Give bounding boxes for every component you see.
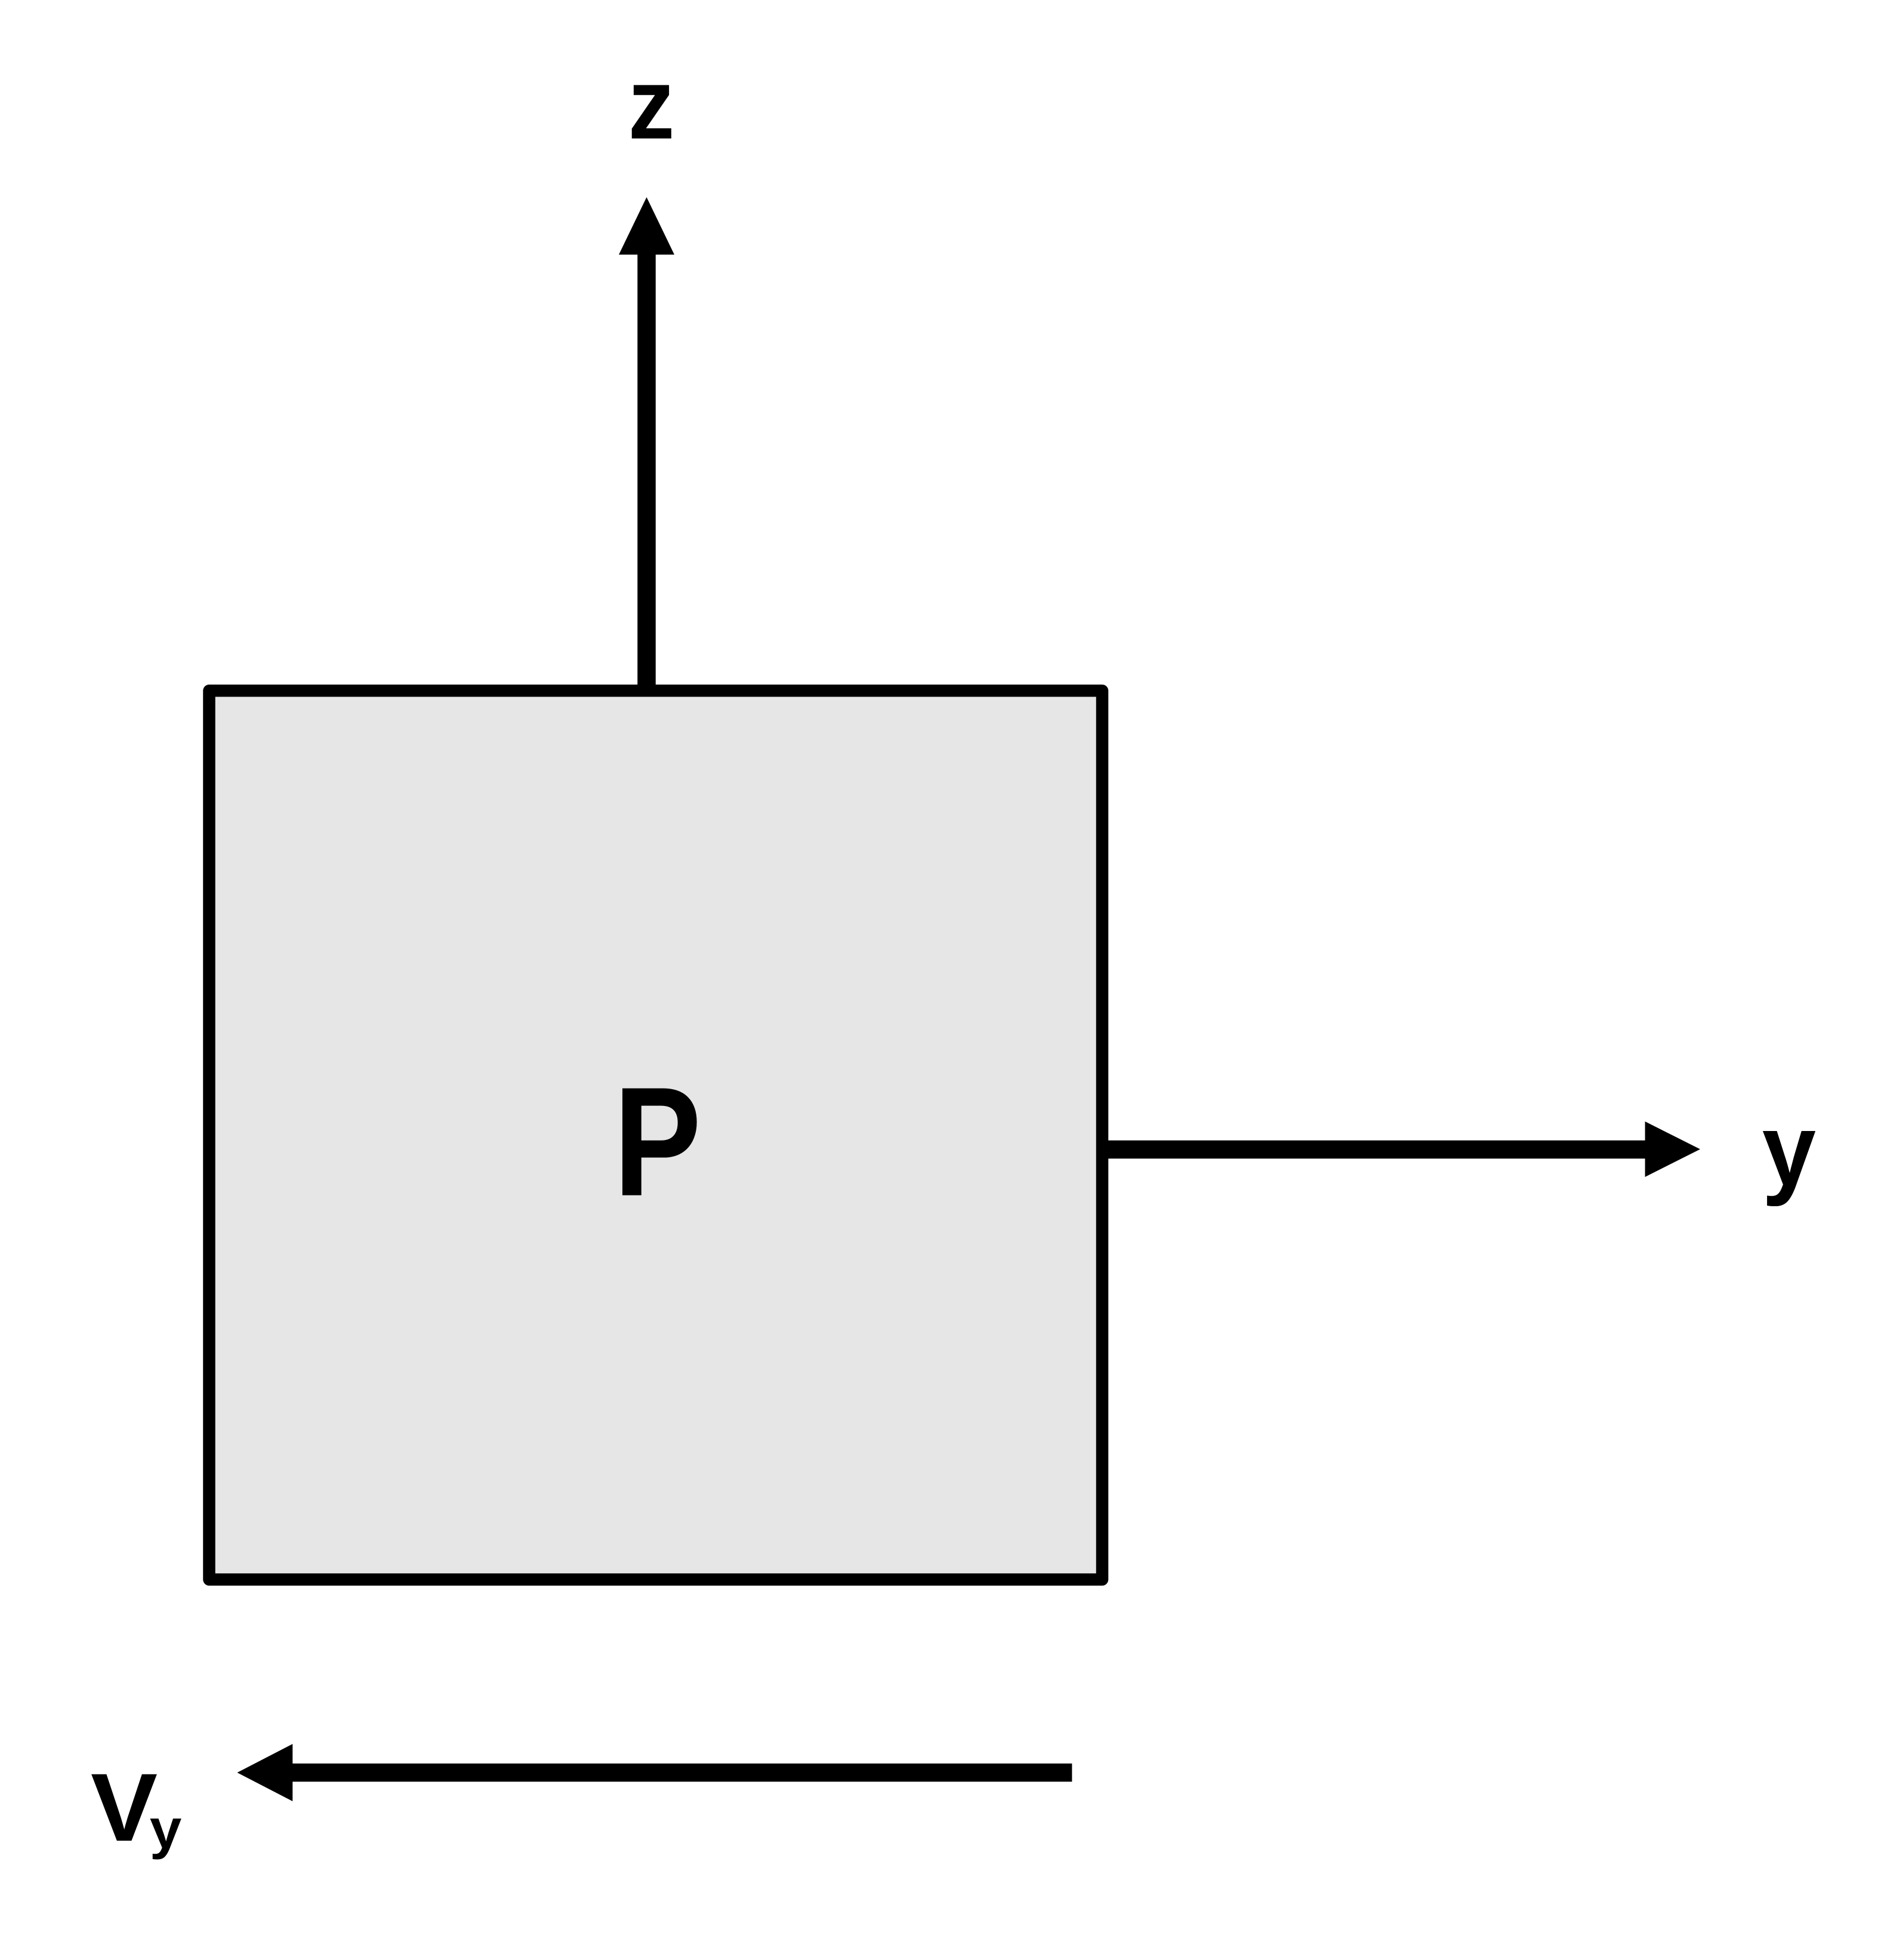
- svg-text:y: y: [150, 1798, 182, 1860]
- svg-text:z: z: [628, 47, 675, 160]
- svg-text:y: y: [1762, 1093, 1816, 1207]
- svg-text:P: P: [613, 1055, 701, 1228]
- svg-text:V: V: [91, 1753, 158, 1862]
